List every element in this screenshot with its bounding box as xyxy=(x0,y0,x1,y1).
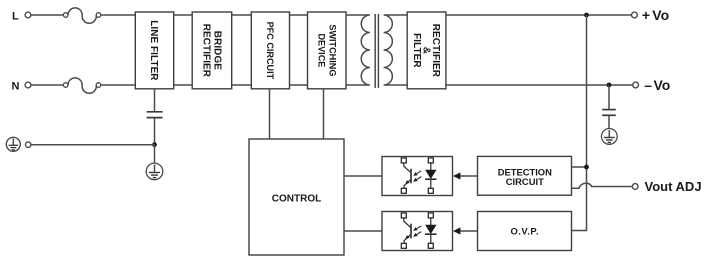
svg-text:PFC CIRCUIT: PFC CIRCUIT xyxy=(265,22,275,80)
wire detection circuit to U1 with arrow xyxy=(453,172,478,179)
svg-text:RECTIFIER: RECTIFIER xyxy=(200,24,211,78)
terminal N xyxy=(12,80,31,92)
wire PE terminal to junction xyxy=(31,144,155,146)
wire capacitor C1 to PE junction xyxy=(154,118,156,145)
wire PE junction to earth xyxy=(154,145,156,163)
svg-text:O.V.P.: O.V.P. xyxy=(511,225,540,236)
fuse F2 (neutral) xyxy=(63,78,100,93)
block O.V.P. xyxy=(478,212,572,251)
wire Vout ADJ with hop over sense line xyxy=(572,183,633,188)
capacitor C1 xyxy=(147,112,163,118)
optocoupler U1 pin pads xyxy=(401,158,406,163)
wire N terminal to fuse F2 xyxy=(31,84,63,86)
transformer T1 core xyxy=(375,14,378,88)
block BRIDGE RECTIFIER xyxy=(192,12,232,89)
block RECTIFIER & FILTER xyxy=(407,12,446,89)
wire PFC to switching device (N rail) xyxy=(290,84,308,86)
optocoupler U1 xyxy=(382,157,453,196)
node junction PE xyxy=(152,142,157,147)
wire -Vo junction to capacitor C2 xyxy=(608,85,610,109)
svg-text:CIRCUIT: CIRCUIT xyxy=(506,176,544,187)
transformer T1 secondary winding xyxy=(384,15,408,85)
block LINE FILTER xyxy=(135,12,173,89)
optocoupler U2 LED xyxy=(430,218,432,225)
optocoupler U2 xyxy=(382,212,453,251)
node junction +Vo sense xyxy=(584,13,589,18)
svg-text:CONTROL: CONTROL xyxy=(272,194,321,205)
optocoupler U2 light arrows xyxy=(417,226,422,229)
terminal -Vo xyxy=(633,77,671,93)
svg-text:L: L xyxy=(12,10,19,22)
terminal +Vo xyxy=(632,7,670,23)
wire +Vo rail xyxy=(446,14,632,16)
wire L terminal to fuse F1 xyxy=(31,14,63,16)
node junction detection sense xyxy=(584,165,589,170)
optocoupler U1 light arrows xyxy=(417,171,422,174)
svg-text:FILTER: FILTER xyxy=(411,33,422,68)
wire fuse F1 to line filter xyxy=(101,14,136,16)
svg-text:Vout ADJ: Vout ADJ xyxy=(645,179,702,194)
svg-text:DEVICE: DEVICE xyxy=(316,33,326,67)
ground earth (input side) xyxy=(146,163,163,180)
block DETECTION CIRCUIT xyxy=(478,156,572,195)
wire -Vo rail xyxy=(446,84,633,86)
block SWITCHING DEVICE xyxy=(308,12,347,89)
svg-text:–Vo: –Vo xyxy=(644,77,670,93)
terminal Vout ADJ xyxy=(632,179,701,194)
svg-text:LINE FILTER: LINE FILTER xyxy=(148,20,159,81)
wire +Vo sense line (vertical) xyxy=(572,15,587,231)
block CONTROL xyxy=(249,139,344,255)
wire switching device to control xyxy=(323,89,325,139)
optocoupler U1 phototransistor xyxy=(404,163,411,172)
wire line filter to bridge rectifier (L rail) xyxy=(174,14,193,16)
optocoupler U2 pin pads xyxy=(401,213,406,218)
wire line filter to bridge rectifier (N rail) xyxy=(174,84,193,86)
wire bridge to PFC (L rail) xyxy=(232,14,252,16)
svg-text:BRIDGE: BRIDGE xyxy=(212,31,223,70)
wire detection circuit to sense node xyxy=(572,166,587,168)
capacitor C2 xyxy=(602,110,616,116)
wire PFC to switching device (L rail) xyxy=(290,14,308,16)
svg-text:SWITCHING: SWITCHING xyxy=(327,24,337,76)
terminal L xyxy=(12,10,31,22)
block PFC CIRCUIT xyxy=(251,12,289,89)
optocoupler U1 LED xyxy=(430,163,432,170)
wire fuse F2 to line filter xyxy=(101,84,136,86)
wire O.V.P. to U2 with arrow xyxy=(453,227,478,234)
svg-text:+Vo: +Vo xyxy=(642,7,669,23)
ground earth (output side) xyxy=(601,129,617,145)
transformer T1 primary winding xyxy=(346,15,370,85)
wire control to optocoupler U1 xyxy=(344,175,382,177)
terminal PE (protective earth) xyxy=(6,137,31,151)
node junction -Vo capacitor xyxy=(607,83,612,88)
optocoupler U2 phototransistor xyxy=(404,218,411,227)
wire capacitor C2 to earth xyxy=(608,116,610,129)
wire bridge to PFC (N rail) xyxy=(232,84,252,86)
svg-text:N: N xyxy=(12,80,20,92)
wire PFC circuit to control xyxy=(269,89,271,139)
wire control to optocoupler U2 xyxy=(344,230,382,232)
wire line filter to capacitor C1 xyxy=(154,89,156,111)
fuse F1 (line) xyxy=(63,8,100,23)
